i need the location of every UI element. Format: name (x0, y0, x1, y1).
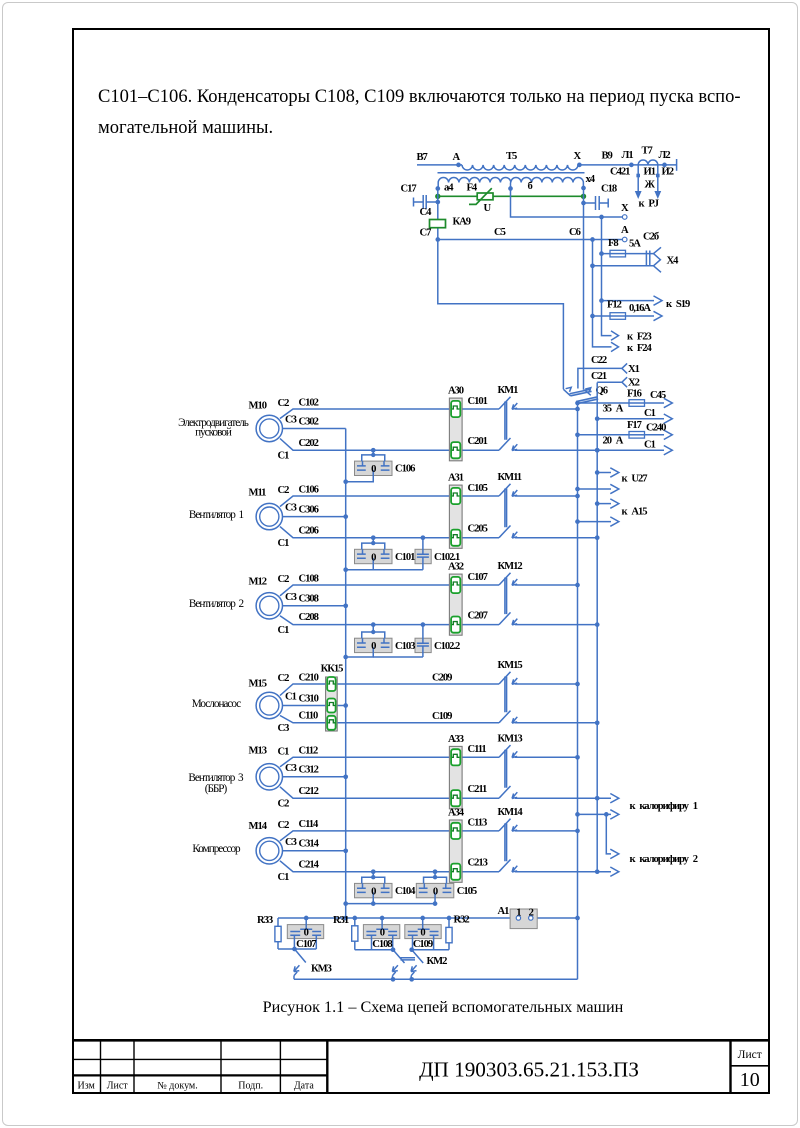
connector X4 bars (646, 251, 649, 267)
label M10 name (178, 417, 249, 438)
capacitor C109 (405, 916, 441, 950)
bottom return rail (294, 977, 578, 982)
label k U27 (622, 473, 649, 484)
arrow from bus A (k U27 pair) (575, 484, 619, 493)
contactor КМ13 mechanical link (505, 750, 507, 788)
connector X2 pin (622, 377, 640, 388)
sheet cell divider (731, 1065, 770, 1067)
svg-text:Подп.: Подп. (238, 1081, 263, 1092)
contactor КМ1 upper contact (498, 385, 519, 409)
capacitor C17 (401, 184, 441, 210)
contactor KM2 contacts (392, 950, 447, 980)
terminal A (621, 225, 629, 242)
capacitor C107 (287, 916, 323, 950)
wire C7 down and across to Q6 (438, 240, 564, 390)
capacitor C102.2 (373, 622, 460, 657)
thermal relay KK15 (321, 664, 344, 731)
labels С105 С205 (468, 483, 488, 535)
wire С110 bottom phase (280, 710, 499, 722)
label 0,16A (629, 303, 651, 314)
capacitor C103 (343, 622, 415, 659)
wire КМ1 lower to bus B (515, 448, 600, 453)
svg-text:Лист: Лист (738, 1049, 762, 1061)
capacitor C101 (343, 535, 415, 572)
wire С202 bottom phase (280, 438, 499, 450)
title block thick divider before doc cell (326, 1040, 328, 1094)
wire R33 bottom rail (278, 947, 316, 952)
paragraph text (98, 82, 758, 142)
terminal bar end of top line (676, 159, 678, 171)
wire bus to kF24 (590, 240, 611, 347)
relay coil KA9 (430, 217, 471, 228)
wire C109 bottom rail (409, 947, 449, 952)
arrowhead k F23 (611, 331, 652, 343)
svg-text:Изм: Изм (78, 1081, 96, 1092)
labels С111 С211 (468, 744, 488, 795)
wire C108 bottom rail (355, 947, 396, 952)
varistor F4 (467, 182, 494, 214)
labels С209 С109 (432, 673, 452, 722)
wire С212 bottom phase (280, 786, 499, 798)
title block thick divider before sheet cell (729, 1040, 731, 1094)
wire С312 middle phase to neutral bus (283, 765, 348, 780)
fuse F17 feeder C240 (575, 420, 672, 440)
wire С102 top phase (280, 397, 499, 418)
label M13 name (188, 772, 244, 795)
capacitor C105 (416, 869, 477, 906)
labels M12 terminals (278, 574, 297, 636)
title block column lines (100, 1040, 102, 1094)
connector X4 row 2 wire (593, 265, 654, 267)
neutral bus vertical (345, 429, 347, 919)
connector X1 pin (622, 363, 640, 375)
contactor КМ11 lower contact (499, 526, 517, 539)
label 5A (629, 239, 641, 250)
labels M11 terminals (278, 485, 297, 549)
contactor КМ13 lower contact (499, 786, 517, 799)
current sensor A32 (448, 562, 464, 636)
wire capacitor return rail to neutral (343, 901, 435, 906)
transformer T5 primary winding (462, 151, 578, 170)
svg-text:ДП 190303.65.21.153.ПЗ: ДП 190303.65.21.153.ПЗ (419, 1057, 639, 1081)
wire a4/C4/C7 vertical (420, 189, 438, 240)
contactor КМ13 upper contact (498, 733, 523, 757)
bus B vertical (596, 383, 598, 872)
fuse F12 wire (593, 300, 663, 321)
current transformer T7 primary (638, 146, 658, 165)
wire С306 middle phase to neutral bus (283, 504, 348, 519)
secondary tap b stub (508, 181, 532, 192)
contactor КМ14 mechanical link (505, 823, 507, 861)
label k A15 (622, 507, 648, 518)
labels M10 terminals (278, 398, 297, 461)
labels M14 terminals (278, 820, 297, 883)
wire С208 bottom phase (280, 612, 499, 624)
wire КМ15 lower to bus B (515, 720, 600, 725)
motor M12 (249, 577, 283, 620)
contactor КМ15 lower contact (499, 711, 517, 724)
contactor КМ15 mechanical link (505, 677, 507, 713)
wire С214 bottom phase (280, 859, 499, 871)
current sensor A33 (448, 734, 464, 809)
node A (453, 152, 461, 167)
arrow from bus A (k A15 pair) (575, 517, 619, 526)
motor M11 (249, 488, 283, 530)
resistor R31 (333, 915, 358, 950)
connector X4 pins (643, 231, 679, 272)
labels С101 С201 (468, 396, 488, 447)
wire КМ13 lower to bus B and heater arrow (515, 794, 619, 803)
wire КМ11 lower to bus B (515, 535, 600, 540)
terminal 2 of A1 (529, 916, 533, 920)
wire КМ15 upper to bus A (515, 682, 580, 687)
breaker Q6 (563, 386, 607, 404)
svg-text:Лист: Лист (107, 1081, 129, 1092)
wire КМ13 upper to bus A (515, 755, 580, 760)
wire С114 top phase (280, 819, 499, 841)
wire x4 vertical down to Q6 (583, 188, 585, 390)
label k kalorifer 2 (630, 854, 698, 865)
transformer T5 secondary winding (438, 178, 583, 188)
arrowhead k F24 (611, 342, 653, 354)
wire С206 bottom phase (280, 525, 499, 537)
bus R row horizontal (278, 916, 580, 921)
connector X1 wire C22 (578, 355, 622, 389)
bus A vertical (577, 402, 579, 979)
bus C5 C6 (435, 227, 622, 242)
current sensor A31 (448, 473, 464, 549)
contactor КМ11 mechanical link (505, 489, 507, 528)
arrow k A15 from bus B (595, 499, 619, 508)
contactor КМ1 mechanical link (505, 402, 507, 440)
wire heater 1 from bus A (575, 810, 619, 819)
wire С308 middle phase to neutral bus (283, 594, 348, 609)
wire КМ14 upper to bus A (515, 829, 580, 834)
terminal 1 of A1 (516, 916, 520, 920)
motor M14 (249, 821, 283, 864)
wire С302 middle phase to neutral bus (283, 416, 346, 428)
wire С310 middle phase to neutral bus (283, 693, 348, 708)
capacitor C104 (355, 869, 417, 906)
node L2 (659, 150, 671, 167)
wire КМ12 upper to bus A (515, 583, 580, 588)
motor M15 (249, 678, 283, 718)
wire С314 middle phase to neutral bus (283, 839, 348, 854)
arrow k S19 upper wire (602, 296, 690, 310)
arrow k F23 wire (599, 217, 611, 336)
node a4 (435, 183, 454, 194)
label Zh (645, 180, 656, 191)
labels M13 terminals (278, 747, 297, 810)
connector X2 wire C21 (591, 371, 622, 382)
arrow k U27 from bus B (595, 468, 619, 477)
node x4 (581, 174, 596, 190)
node L1 (622, 150, 634, 167)
green measuring wire a4 to x4 (435, 194, 586, 199)
wire КМ11 upper to bus A (515, 494, 580, 499)
label M12 name (189, 598, 244, 610)
figure caption (0, 998, 800, 1017)
label k kalorifer 1 (630, 801, 698, 812)
wire b tap down to X terminal (511, 189, 623, 220)
fuse F16 feeder C45 (575, 388, 672, 407)
contactor КМ11 upper contact (498, 472, 522, 496)
label 35 A (603, 403, 624, 414)
wire С106 top phase (280, 484, 499, 506)
contactor КМ14 lower contact (499, 860, 517, 873)
wire heater 2 drop (606, 814, 619, 858)
wire КМ12 lower to bus B (515, 622, 600, 627)
wire С210 top phase (280, 672, 499, 695)
motor M13 (249, 746, 283, 790)
feeder C1 upper (595, 408, 672, 423)
svg-text:10: 10 (740, 1069, 760, 1091)
contactor КМ14 upper contact (498, 807, 524, 831)
module A1 (498, 906, 538, 929)
contactor KM3 contact (294, 949, 332, 979)
label 20 A (603, 435, 624, 446)
T7 secondary lead I1 arrow to RJ (635, 165, 656, 199)
transformer core line (438, 172, 585, 174)
wire B9 segment X to L1 (578, 151, 677, 165)
title block top border (72, 1039, 769, 1042)
contactor КМ12 upper contact (498, 561, 523, 585)
current sensor A34 (448, 808, 465, 883)
label k RJ (639, 199, 659, 210)
feeder C1 lower (595, 440, 672, 455)
capacitor C18 (581, 184, 617, 210)
label M14 name (192, 843, 241, 855)
label M15 name (192, 698, 241, 710)
contactor КМ12 mechanical link (505, 578, 507, 615)
labels С107 С207 (468, 572, 489, 622)
wire КМ1 upper to bus A (515, 407, 580, 412)
capacitor C108 (363, 916, 399, 950)
contactor КМ1 lower contact (499, 438, 517, 451)
svg-text:Дата: Дата (294, 1081, 314, 1092)
title block row lines (72, 1058, 327, 1060)
capacitor C102.1 (373, 535, 460, 569)
wire С112 top phase (280, 746, 499, 767)
labels С113 С213 (468, 818, 488, 869)
labels M15 terminals (278, 673, 297, 734)
label C421 (610, 167, 630, 178)
T7 secondary lead I2 arrow to RJ (654, 165, 673, 199)
resistor R33 (257, 915, 281, 949)
contactor КМ12 lower contact (499, 612, 517, 625)
wire С108 top phase (280, 573, 499, 596)
fuse F8 wire (602, 238, 654, 257)
svg-text:№ докум.: № докум. (157, 1081, 198, 1092)
wire КМ14 lower to bus B and heater arrow (515, 867, 619, 876)
label M11 name (189, 509, 244, 521)
motor M10 (249, 401, 283, 442)
node X (574, 151, 582, 167)
terminal X (621, 203, 629, 219)
wire B7 top line left segment (417, 152, 463, 165)
contactor КМ15 upper contact (498, 660, 523, 684)
capacitor C106 (343, 448, 415, 484)
resistor R32 (446, 914, 469, 949)
current sensor A30 (448, 386, 464, 461)
